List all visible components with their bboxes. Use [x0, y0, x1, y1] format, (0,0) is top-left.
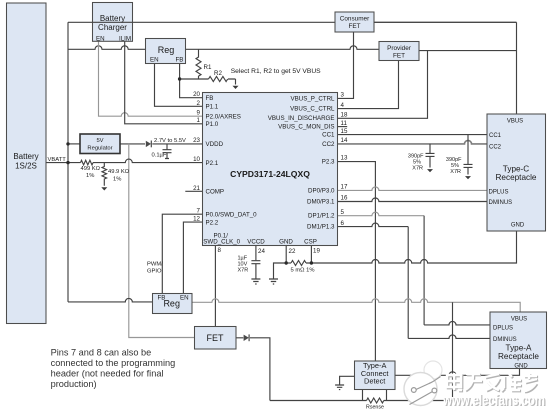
wire line B battery to Reg and Provider FET [68, 46, 379, 50]
svg-text:DM0/P3.1: DM0/P3.1 [307, 199, 335, 206]
wire bottom Reg input [68, 298, 153, 301]
svg-text:4: 4 [341, 102, 345, 109]
junction FB divider node [178, 77, 181, 80]
svg-text:Reg: Reg [163, 299, 180, 309]
wire Type-A DMINUS horizontal [408, 335, 490, 339]
svg-text:FB: FB [176, 57, 184, 64]
svg-text:FET: FET [393, 53, 405, 60]
svg-text:Consumer: Consumer [340, 16, 370, 23]
wire node VBATT-charger vertical bus [67, 22, 69, 302]
arrow ground 390pF CC2 [427, 169, 433, 172]
junction VBATT node [66, 161, 69, 164]
watermark CJK text simulated [448, 374, 538, 392]
battery charger box [93, 3, 133, 42]
capacitor 390pF CC2 [426, 144, 435, 168]
regulator Reg top box [146, 39, 186, 64]
svg-text:P2.3: P2.3 [322, 159, 335, 166]
svg-text:CC1: CC1 [322, 132, 335, 139]
svg-text:Receptacle: Receptacle [496, 173, 537, 182]
wire CSP sense line to Type-C GND [306, 231, 517, 263]
svg-text:COMP: COMP [206, 189, 225, 196]
wire R1 R2 feedback node [180, 78, 236, 80]
wire 5V regulator output to VDDD [120, 143, 203, 145]
svg-text:49.9 KΩ: 49.9 KΩ [108, 169, 130, 175]
resistor 5mOhm [291, 261, 306, 266]
Type-A receptacle box [490, 312, 547, 369]
diode D2 after FET [244, 335, 249, 341]
svg-text:connected to the programming: connected to the programming [51, 358, 176, 368]
svg-text:499 KΩ: 499 KΩ [81, 166, 101, 172]
resistor R1 [196, 49, 201, 79]
wire charger ILIM to pin 1 [125, 41, 203, 124]
svg-text:GND: GND [514, 363, 528, 369]
wire pin 18 VBUS_IN_DISCHARGE [338, 51, 428, 119]
svg-text:9: 9 [197, 110, 201, 117]
svg-text:2.7V to 5.5V: 2.7V to 5.5V [154, 138, 186, 144]
svg-text:X7R: X7R [238, 268, 249, 274]
wire connect detect bottom stubs to Rsense [363, 390, 387, 401]
svg-text:P0.0/SWD_DAT_0: P0.0/SWD_DAT_0 [206, 212, 258, 219]
svg-text:VBUS: VBUS [507, 118, 523, 124]
svg-text:GND: GND [279, 239, 293, 246]
svg-text:Battery: Battery [13, 152, 38, 161]
svg-text:17: 17 [341, 184, 348, 191]
wire pin 17 DP0 to Type-C DPLUS [338, 187, 488, 190]
svg-text:DMINUS: DMINUS [489, 200, 513, 206]
svg-text:24: 24 [258, 248, 265, 255]
wire VBATT divider to pin 10 P2.1 [46, 159, 203, 163]
svg-text:Charger: Charger [98, 23, 127, 32]
svg-text:5V: 5V [96, 138, 103, 144]
svg-text:Regulator: Regulator [87, 146, 112, 152]
wire Provider FET control to pin 4 [338, 61, 399, 109]
svg-text:11: 11 [341, 120, 348, 127]
svg-text:ILIM: ILIM [119, 35, 131, 42]
wire VCCD pin [255, 246, 257, 261]
svg-text:VDDD: VDDD [206, 141, 224, 148]
wire Reg FB to pin 20 [180, 64, 203, 98]
svg-text:CC2: CC2 [489, 144, 502, 150]
svg-text:VBUS_P_CTRL: VBUS_P_CTRL [290, 96, 335, 103]
svg-text:GND: GND [511, 222, 525, 228]
svg-text:5 mΩ 1%: 5 mΩ 1% [291, 268, 315, 274]
svg-text:DP0/P3.0: DP0/P3.0 [308, 187, 335, 194]
svg-text:FET: FET [348, 23, 360, 30]
wire GND pin to ground [274, 246, 287, 280]
svg-text:Select R1, R2 to get 5V VBUS: Select R1, R2 to get 5V VBUS [231, 68, 321, 75]
wire DP1 vertical to Type-A DPLUS [423, 216, 425, 325]
ground GND pin [269, 279, 278, 284]
wire Provider FET output to VBUS [419, 50, 517, 52]
svg-text:7: 7 [197, 208, 201, 215]
svg-text:19: 19 [313, 248, 320, 255]
svg-text:SWD_CLK_0: SWD_CLK_0 [203, 239, 240, 246]
wire pin 12 to bottom Reg EN [183, 222, 202, 293]
svg-text:Battery: Battery [100, 14, 125, 23]
wire battery top line A to Consumer FET [68, 21, 517, 23]
IC CYPD3171-24LQXQ box [203, 93, 338, 246]
ground VCCD [251, 279, 260, 284]
bottom Reg box [153, 294, 193, 314]
svg-text:EN: EN [96, 35, 105, 42]
wire CC1 [338, 134, 488, 136]
svg-text:VBATT: VBATT [48, 157, 67, 163]
svg-text:1: 1 [197, 117, 201, 124]
svg-text:www.elecfans.com: www.elecfans.com [442, 393, 545, 409]
svg-text:header (not needed for final: header (not needed for final [51, 369, 164, 379]
svg-text:3: 3 [341, 91, 345, 98]
svg-text:22: 22 [289, 248, 296, 255]
wire pin 11 stub [338, 126, 348, 128]
wire CC2 [338, 140, 488, 144]
svg-text:P2.1: P2.1 [206, 160, 219, 167]
wire pin 13 P2.3 to Type-A connect detect [338, 162, 376, 361]
wire Reg EN to pin 2 [155, 64, 203, 107]
wire 5V regulator input [68, 143, 80, 145]
junction GND 5mOhm [285, 261, 288, 264]
svg-text:FB: FB [206, 95, 214, 102]
wire CSP pin [310, 246, 312, 264]
svg-text:DPLUS: DPLUS [489, 190, 509, 196]
svg-text:VBUS: VBUS [511, 316, 527, 322]
svg-text:20: 20 [193, 91, 200, 98]
svg-text:P1.0: P1.0 [206, 121, 219, 128]
svg-text:CC1: CC1 [489, 133, 502, 139]
svg-text:8: 8 [218, 247, 222, 254]
svg-text:DMINUS: DMINUS [493, 337, 517, 343]
consumer FET box [335, 12, 374, 32]
wire pin 16 DM0 to Type-C DMINUS [338, 198, 488, 202]
ground connect detect [335, 385, 344, 390]
svg-text:CC2: CC2 [322, 141, 335, 148]
wire pin 6 DM1 [338, 223, 409, 227]
svg-text:14: 14 [341, 137, 348, 144]
wire bottom rail [270, 400, 453, 402]
svg-text:1%: 1% [86, 173, 94, 179]
wire bottom Reg output to Type-A VBUS [192, 299, 520, 312]
diode D1 5V rail [146, 141, 151, 147]
svg-text:23: 23 [193, 137, 200, 144]
wire connect detect left to ground [340, 376, 355, 385]
svg-text:FET: FET [207, 333, 225, 343]
resistor 49.9K [102, 163, 107, 186]
svg-text:21: 21 [193, 185, 200, 192]
bottom FET box [195, 327, 237, 350]
Type-A connect detect box [355, 361, 396, 390]
svg-text:P1.1: P1.1 [206, 104, 219, 111]
capacitor 390pF CC1 [464, 135, 473, 175]
svg-text:DPLUS: DPLUS [493, 325, 513, 331]
wire Rsense vertical riser to VBUS line [452, 302, 454, 400]
svg-text:Receptacle: Receptacle [498, 352, 539, 361]
svg-text:X7R: X7R [450, 169, 461, 175]
svg-text:Rsense: Rsense [366, 405, 384, 411]
svg-text:EN: EN [180, 295, 189, 302]
watermark logo circle [424, 361, 442, 379]
wire line A through charger [93, 21, 133, 23]
svg-text:P2.2: P2.2 [206, 219, 219, 226]
svg-text:0.1µF: 0.1µF [152, 153, 167, 159]
svg-text:R1: R1 [204, 64, 212, 71]
svg-text:CSP: CSP [304, 239, 317, 246]
svg-text:10: 10 [193, 156, 200, 163]
svg-text:5: 5 [341, 209, 345, 216]
wire pin 7 to bottom Reg FB [162, 214, 202, 293]
svg-text:DM1/P1.3: DM1/P1.3 [307, 224, 335, 231]
svg-text:production): production) [51, 379, 97, 389]
wire charger EN to pin 9 [99, 41, 203, 116]
svg-text:VBUS_C_MON_DIS: VBUS_C_MON_DIS [278, 124, 334, 131]
svg-text:EN: EN [150, 57, 159, 64]
wire pin 8 SWD_CLK to FET gate [214, 246, 216, 327]
Type-C receptacle box [487, 114, 546, 231]
capacitor 0.1uF [163, 144, 172, 159]
svg-text:VBUS_IN_DISCHARGE: VBUS_IN_DISCHARGE [268, 115, 335, 122]
svg-text:PWM/: PWM/ [147, 262, 163, 268]
svg-text:Pins 7 and 8 can also be: Pins 7 and 8 can also be [51, 347, 152, 357]
wire connect detect right to Type-A GND [395, 369, 520, 376]
wire Type-A DPLUS horizontal [424, 321, 490, 324]
wire Consumer FET output [374, 21, 517, 23]
wire COMP stub pin 21 [185, 190, 202, 192]
arrow 49.9K to ground [101, 187, 107, 190]
wire pin 5 DP1 [338, 212, 425, 215]
svg-text:GPIO: GPIO [147, 269, 162, 275]
svg-text:DP1/P1.2: DP1/P1.2 [308, 213, 335, 220]
svg-text:15: 15 [341, 128, 348, 135]
wire Consumer FET control to pin 3 [338, 32, 354, 98]
svg-text:12: 12 [193, 216, 200, 223]
wire GND to 5mOhm left [286, 262, 291, 264]
resistor Rsense [367, 398, 384, 403]
resistor 499K [81, 160, 93, 165]
wire 5V rail vertical to FET input [129, 144, 195, 338]
svg-text:6: 6 [341, 220, 345, 227]
svg-text:2: 2 [197, 100, 201, 107]
svg-text:1%: 1% [113, 176, 121, 182]
arrow ground 390pF CC1 [465, 176, 471, 179]
junction charger bus and 5V regulator input [66, 142, 69, 145]
wire VBUS vertical to Type-C receptacle [516, 22, 518, 114]
svg-text:Detect: Detect [364, 377, 385, 386]
svg-text:VBUS_C_CTRL: VBUS_C_CTRL [290, 106, 335, 113]
svg-text:18: 18 [341, 111, 348, 118]
svg-text:16: 16 [341, 195, 348, 202]
wire FET output diode to bottom rail [236, 338, 270, 401]
svg-text:Provider: Provider [387, 45, 412, 52]
junction CSP 5mOhm [310, 261, 313, 264]
provider FET box [379, 42, 419, 61]
svg-text:1S/2S: 1S/2S [15, 162, 37, 171]
battery box [7, 3, 47, 324]
resistor R2 [209, 77, 228, 82]
wire DM1 vertical to Type-A DMINUS [407, 227, 409, 339]
WATERMARK [404, 361, 546, 410]
svg-text:X7R: X7R [412, 166, 423, 172]
svg-text:13: 13 [341, 155, 348, 162]
capacitor 1uF VCCD [251, 261, 260, 279]
svg-text:Reg: Reg [158, 45, 175, 55]
arrow R2 to VBUS [235, 79, 237, 85]
svg-text:P2.0/AXRES: P2.0/AXRES [206, 114, 241, 121]
svg-text:CYPD3171-24LQXQ: CYPD3171-24LQXQ [230, 169, 310, 179]
svg-text:VCCD: VCCD [247, 239, 265, 246]
5V regulator box [80, 134, 120, 154]
svg-text:R2: R2 [214, 70, 222, 77]
